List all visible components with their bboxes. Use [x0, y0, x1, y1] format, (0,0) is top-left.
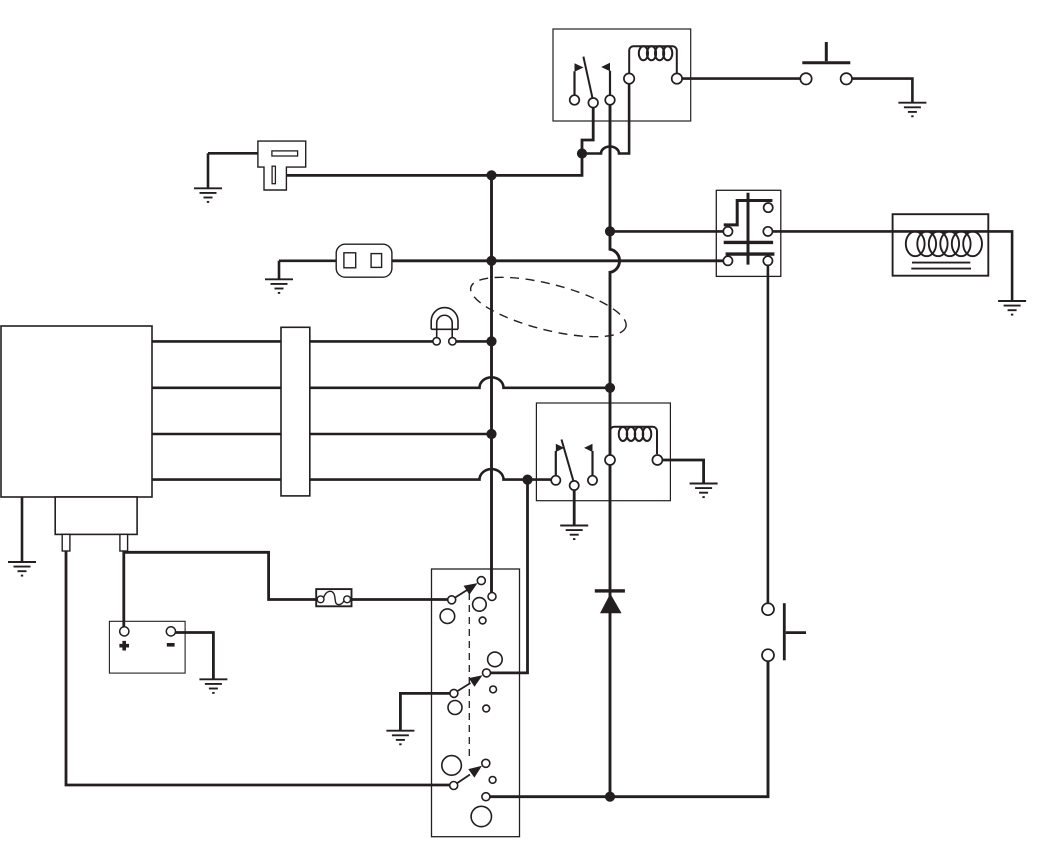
ground: relay K2 switched contact	[560, 526, 588, 540]
alternator A1 regulator sub-box	[55, 497, 137, 534]
connector J1 pin 2	[371, 254, 382, 268]
diode D1 cathode bar	[595, 589, 625, 592]
wire: relay K2 coil return to ground	[662, 460, 703, 484]
wire: relay K1 output to push button S2	[682, 77, 800, 80]
relay K1 fixed contact (right) with flag	[609, 71, 611, 96]
ignition module U1 box	[716, 190, 781, 276]
alternator terminal stub 2	[120, 534, 128, 551]
relay K1 movable arm	[583, 57, 592, 99]
ignition switch S1 position 2 arm	[458, 683, 471, 691]
fusible link F1 element slot (horizontal)	[272, 151, 298, 156]
fuse F2 body	[316, 589, 351, 606]
junction node (527.5,479.6)	[522, 475, 532, 485]
alternator terminal stub 1	[62, 534, 70, 551]
fuse F2 element curve	[324, 591, 345, 604]
wire: main vertical line 1 (x=491.5) from node A to ignition switch	[490, 175, 493, 594]
wire: suppressor right terminal to node on line 1	[456, 340, 492, 343]
wire: alternator lead 4 with hop over line 1, to relay K2 common	[152, 469, 551, 479]
wire: alternator stub to ignition switch start arm (bottom run)	[66, 551, 450, 785]
battery BT1 minus sign	[167, 643, 175, 647]
wire: main vertical line 2 (x=610) from relay K1 to bottom node, hop right at y=261	[610, 104, 620, 797]
wire: ignition module to ignition coil primary and ground	[773, 231, 1013, 301]
ground: relay K2 coil	[690, 484, 718, 498]
ground: ignition switch accessory	[386, 731, 414, 745]
push button S2 contact circles	[800, 73, 811, 84]
relay K1 terminal circles	[570, 95, 580, 105]
fusible link F1 body (T-shaped holder)	[258, 141, 306, 190]
relay K2 fixed contact (left) with flag	[555, 451, 557, 476]
ground: ignition coil L1	[998, 301, 1026, 315]
wire: battery feed to fuse F2	[124, 552, 318, 599]
wire: connector output across line 1 to ignition module lower-left terminal	[390, 259, 723, 262]
wire: fuse F2 to ignition switch battery contact	[350, 598, 449, 601]
junction node (491.5,434)	[486, 429, 496, 439]
wire: relay K1 coil feed with hop over line x=610	[582, 83, 629, 154]
relay K2 coil top run and right lead	[610, 427, 657, 454]
ignition switch S1 position 3 arrowhead	[468, 766, 482, 778]
wire: alternator lead 3 to node on line 1	[152, 433, 492, 436]
ignition module U1 center electrode	[747, 193, 750, 265]
relay K1 box	[553, 29, 691, 121]
battery BT1 body	[109, 621, 185, 673]
wire: ground lead of fusible link F1	[208, 152, 274, 155]
ignition switch S1 position 3 arm	[457, 775, 470, 784]
diode D1 anode triangle	[600, 594, 622, 614]
connector J1 pin 1	[344, 253, 356, 268]
relay K2 movable arm	[562, 440, 574, 482]
ignition switch S1 position 3 contacts	[442, 756, 462, 776]
relay K2 terminal circles	[551, 476, 560, 485]
ignition switch S1 box	[432, 569, 520, 837]
ignition module U1 step line	[724, 201, 773, 225]
junction node B (610,231.4)	[605, 226, 615, 236]
ignition switch S1 position 2 contacts	[488, 652, 503, 667]
ignition switch S1 position 2 arrowhead	[469, 675, 483, 687]
alternator A1 body	[1, 326, 152, 497]
connector J1 body	[336, 244, 392, 277]
relay K1 coil terminal circles	[624, 73, 634, 83]
wire: alternator ground stem	[21, 497, 24, 562]
wire: battery positive feed from alternator stub	[122, 551, 125, 630]
junction node (491.5,341.4)	[486, 336, 496, 346]
relay K1 coil loops	[639, 46, 673, 60]
ground: alternator case	[8, 562, 36, 576]
relay K2 fixed contact (right) with flag	[591, 451, 593, 476]
ignition switch S1 position 1 arm	[455, 590, 467, 598]
dashed harness loop ellipse	[465, 265, 631, 349]
fusible link F1 element slot (vertical)	[272, 166, 275, 184]
ignition switch S1 position 1 arrowhead	[464, 583, 478, 595]
ignition module U1 terminal circles	[764, 203, 773, 212]
ignition module U1 plate bar 2	[726, 252, 775, 255]
wire: ignition switch accessory arm to ground	[400, 693, 450, 730]
relay K2 box	[536, 403, 670, 501]
ignition switch S1 position 1 contacts	[448, 596, 456, 604]
wire: relay K2 switched contact to ground	[573, 490, 576, 526]
noise suppressor L2 inner arch legs	[437, 315, 453, 337]
junction node A (491.5,175)	[486, 170, 496, 180]
ground: connector J1	[265, 279, 293, 293]
push button S3 contact circles	[762, 603, 774, 615]
wire: alternator lead 2 with hop over line 1, to node on line 2	[152, 377, 610, 387]
wire: node B (610,231) to ignition module left terminal	[610, 230, 723, 233]
ground: push button S2	[898, 103, 926, 117]
push button S3 stem	[786, 631, 806, 634]
wire: branch from node (527.5,479.6) down to ignition switch run contact	[483, 480, 528, 673]
noise suppressor L2 terminal circles	[433, 338, 440, 345]
wire: push button S2 to ground	[852, 79, 912, 103]
relay K1 fixed contact (left, NC) with flag	[573, 71, 575, 95]
bulkhead connector bar over alternator leads	[281, 327, 310, 496]
junction node (610,796.7)	[605, 792, 615, 802]
noise suppressor L2 outer arch	[431, 308, 458, 330]
relay K1 coil leads and top run	[629, 46, 677, 74]
ignition coil L1 box	[893, 214, 989, 276]
wire: ignition switch output along bottom to push button S3	[490, 661, 768, 797]
ground: battery negative	[199, 679, 227, 693]
relay K2 coil terminal circles	[605, 455, 615, 465]
wire: alternator lead 1 to suppressor left terminal	[152, 340, 433, 343]
wire: ignition module lower-right terminal down to push button S3	[767, 265, 770, 603]
push button S3 plate	[783, 603, 786, 660]
wire: battery negative to ground	[175, 633, 214, 680]
junction node (491.5,261)	[486, 256, 496, 266]
ignition switch S1 gang linkage (dashed)	[468, 593, 470, 761]
wire: fusible link F1 output to node A (y=175)	[275, 104, 593, 175]
ignition coil L1 winding loops	[906, 231, 982, 256]
relay K2 coil loops	[619, 427, 652, 441]
fuse F2 terminal circles	[317, 596, 324, 603]
battery BT1 terminal circles	[120, 627, 129, 636]
push button S2 stem	[825, 42, 828, 61]
ignition module U1 plate bar 1	[724, 241, 773, 244]
push button S2 plate	[802, 61, 850, 64]
ignition coil L1 core lines	[911, 263, 971, 269]
junction node (610,388)	[605, 383, 615, 393]
wire: connector ground lead	[279, 261, 338, 280]
battery BT1 plus sign	[119, 641, 129, 651]
ground: fusible link F1	[207, 153, 210, 188]
junction node (582,153.5) relay K1 coil tap	[577, 148, 587, 158]
